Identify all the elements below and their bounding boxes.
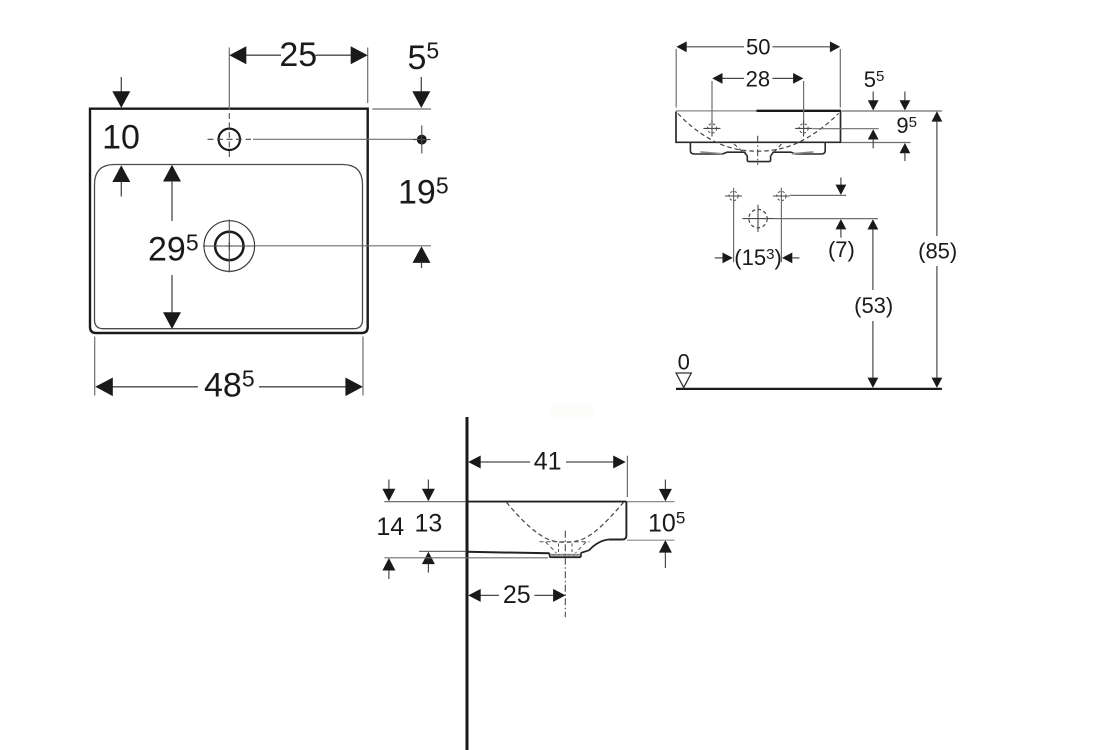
dim 29-5 vertical line with arrows bbox=[163, 165, 181, 182]
bowl interior curve dashed (section) bbox=[507, 502, 624, 542]
drain dashed funnel right bbox=[576, 542, 587, 553]
svg-text:25: 25 bbox=[503, 581, 531, 609]
tap hole reference line right bbox=[813, 128, 879, 130]
tap hole marker right bbox=[799, 124, 808, 133]
svg-text:195: 195 bbox=[398, 172, 449, 211]
dim 41 extension right bbox=[626, 456, 628, 497]
drain reference line right bbox=[256, 245, 431, 247]
faucet hole centerline horizontal (dash) bbox=[208, 138, 252, 140]
PLAN VIEW (top-left) bbox=[90, 36, 449, 404]
svg-text:(85): (85) bbox=[918, 239, 957, 264]
waste trap box bbox=[550, 553, 582, 557]
drain centerline (elevation) bbox=[757, 136, 759, 165]
base shadow wedge left bbox=[701, 152, 723, 154]
dim 13 reference line bbox=[419, 550, 466, 552]
pedestal / base outline bbox=[690, 143, 825, 162]
dim 10 down arrow bbox=[120, 77, 122, 92]
faucet hole centerline vertical (dash) bbox=[228, 113, 230, 158]
basin inner bowl edge (plan) bbox=[95, 165, 363, 329]
svg-text:295: 295 bbox=[148, 230, 199, 269]
dim 14 up arrow bbox=[382, 558, 395, 571]
drain dashed funnel left bbox=[546, 542, 557, 553]
svg-text:25: 25 bbox=[279, 36, 317, 74]
drain inner circle bbox=[215, 232, 243, 260]
dim 53 vertical line with arrows bbox=[868, 219, 879, 229]
base shadow wedge right bbox=[792, 152, 813, 154]
svg-text:14: 14 bbox=[376, 513, 404, 541]
faucet reference line to dot bbox=[253, 138, 417, 140]
dim 7 up arrow bbox=[836, 219, 847, 229]
bowl interior curve (dashed) bbox=[678, 114, 839, 152]
dim 10-5 up arrow bbox=[659, 540, 672, 553]
top edge reference line right bbox=[842, 110, 942, 112]
underside curve to trap (section) bbox=[581, 540, 609, 553]
drain outer circle bbox=[204, 221, 255, 272]
dim 50 extension left bbox=[675, 49, 677, 108]
basin outer rim (plan) bbox=[90, 109, 368, 333]
top edge reference line left bbox=[384, 501, 466, 503]
drain funnel dashed right bbox=[770, 144, 782, 157]
dim 9-5 arrows bbox=[904, 92, 906, 102]
dim 25 extension line right bbox=[367, 48, 369, 104]
dim 19-5 up arrow bbox=[413, 246, 431, 263]
wall fixing hole marker right bbox=[777, 191, 786, 200]
faucet hole circle bbox=[219, 129, 240, 150]
drain centerline (section) bbox=[564, 531, 566, 617]
rim bottom reference line right bbox=[842, 142, 911, 144]
drain dashed verticals bbox=[558, 544, 560, 553]
svg-text:10: 10 bbox=[102, 118, 140, 156]
rim top edge thick segment (right) bbox=[757, 110, 842, 112]
dim 5-5 down arrow bbox=[420, 77, 422, 92]
top edge thin extension right bbox=[626, 501, 674, 503]
dim 10-5 down arrow bbox=[664, 480, 666, 491]
bottom edge reference line right bbox=[627, 539, 674, 541]
svg-text:(7): (7) bbox=[828, 237, 855, 262]
dim 28 line and arrows bbox=[722, 77, 744, 79]
dim 25 line and arrows bbox=[246, 54, 281, 56]
svg-text:0: 0 bbox=[678, 350, 690, 375]
dim 48-5 extension lines bbox=[94, 337, 96, 396]
dim 50 line and arrows bbox=[687, 46, 745, 48]
dim 48-5 line and arrows bbox=[112, 386, 198, 388]
dim 14 down arrow bbox=[388, 480, 390, 491]
ELEVATION VIEW (top-right) bbox=[676, 34, 957, 389]
drain center cross bbox=[228, 242, 230, 250]
top edge reference line (right of rim) bbox=[372, 108, 431, 110]
svg-text:95: 95 bbox=[896, 113, 917, 138]
svg-text:50: 50 bbox=[746, 34, 770, 59]
basin right edge and bottom corner (section) bbox=[609, 502, 627, 540]
trap inner lines bbox=[551, 553, 581, 555]
basin top edge (section) bbox=[467, 501, 626, 503]
svg-text:105: 105 bbox=[648, 509, 685, 538]
svg-text:41: 41 bbox=[534, 448, 562, 476]
basin underside line from wall bbox=[467, 552, 550, 554]
svg-text:485: 485 bbox=[204, 365, 255, 404]
svg-text:28: 28 bbox=[746, 66, 770, 91]
svg-text:(53): (53) bbox=[854, 293, 893, 318]
dim 15-3 line and arrows bbox=[715, 257, 723, 259]
rim top edge thin segment (left) bbox=[676, 110, 757, 112]
basin rim front outline (sides and bottom) bbox=[676, 112, 841, 143]
dim 10 up arrow bbox=[112, 165, 130, 182]
dim 5-5 arrows (elevation) bbox=[872, 92, 874, 102]
dim 7 down arrow bbox=[840, 178, 842, 187]
tap hole marker left bbox=[707, 124, 716, 133]
drain dashed horizontal bbox=[540, 541, 590, 543]
dim 85 vertical line with arrows bbox=[932, 111, 943, 121]
faint watermark smudge bbox=[551, 405, 593, 417]
datum triangle bbox=[676, 373, 691, 388]
svg-text:13: 13 bbox=[414, 510, 442, 538]
SIDE SECTION VIEW (bottom) bbox=[376, 405, 685, 750]
drain funnel dashed left bbox=[734, 144, 748, 157]
wall outlet dashed circle bbox=[749, 209, 767, 227]
dim 25 extension line left (above faucet) bbox=[228, 48, 230, 111]
dim 14 reference line bbox=[384, 557, 548, 559]
fixing holes reference line right bbox=[790, 194, 846, 196]
svg-text:55: 55 bbox=[408, 38, 440, 78]
drain crosshair bbox=[228, 220, 230, 273]
reference dot (5.5 dim end) bbox=[417, 135, 427, 145]
outlet reference line right bbox=[775, 218, 878, 220]
wall line bbox=[466, 417, 469, 750]
svg-text:55: 55 bbox=[864, 67, 885, 92]
svg-text:(153): (153) bbox=[734, 245, 781, 270]
wall fixing hole marker left bbox=[729, 191, 738, 200]
dim 41 line and arrows bbox=[480, 461, 530, 463]
floor line bbox=[676, 388, 942, 390]
dim 28 extension lines bbox=[711, 81, 713, 123]
dim 13 down arrow bbox=[427, 480, 429, 491]
dim 25 line and arrows (section) bbox=[480, 594, 499, 596]
dim 50 extension right bbox=[839, 49, 841, 108]
dim 13 up arrow bbox=[422, 552, 435, 565]
